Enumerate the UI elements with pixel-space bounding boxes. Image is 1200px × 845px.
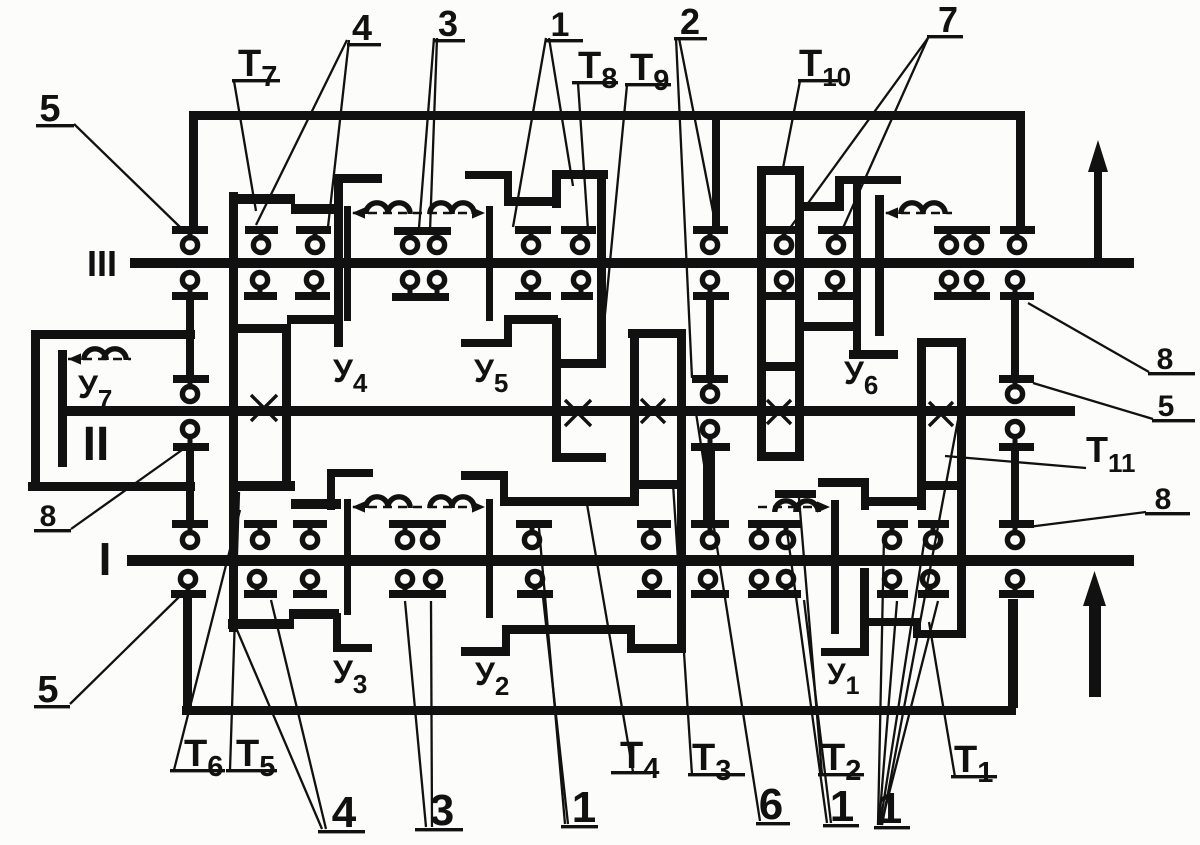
svg-text:8: 8	[40, 500, 57, 533]
gear z4 above shaft III	[561, 226, 596, 234]
clutch T11 box top bar	[917, 338, 966, 347]
gear z1 above shaft III	[245, 226, 278, 234]
clutch T10 drum left wall	[757, 166, 766, 461]
svg-text:2: 2	[680, 1, 700, 42]
gear above shaft I, middle column	[691, 520, 729, 528]
coupling box 1 bottom bar / clutch T5 upper bar	[229, 481, 295, 491]
gear w6 above shaft I	[918, 520, 949, 528]
output arrow (top right, on shaft III)	[1094, 168, 1102, 260]
coupling box 2 left wall	[552, 318, 561, 462]
svg-text:4: 4	[332, 788, 357, 837]
shaft III	[130, 258, 1134, 268]
gear z2 above shaft III	[296, 226, 331, 234]
gear above shaft II, middle column	[692, 375, 728, 383]
coupling box 1 top bar	[233, 324, 291, 333]
gear block U7 housing (left box)	[31, 330, 40, 491]
clutch T3 drum wall (crosses shafts II and I)	[677, 329, 686, 653]
gear w2 below shaft I	[293, 590, 327, 598]
clutch T3 step wall	[627, 629, 635, 653]
gear z6 below shaft III	[766, 292, 802, 300]
gear block U5 bottom bar	[461, 339, 512, 347]
coupling cross box 3	[641, 399, 665, 423]
clutch T1 upper bar	[861, 618, 921, 626]
gear above shaft I, left support	[172, 520, 208, 528]
twin gears below shaft I (right pair)	[748, 590, 801, 598]
gear below shaft III, left column	[172, 292, 208, 300]
clutch T8 left wall stub	[552, 170, 561, 208]
gear block U2 bottom-left bar	[461, 647, 510, 656]
clutch T8 left bar	[504, 197, 558, 206]
gear below shaft II, right column	[999, 443, 1034, 451]
svg-text:1: 1	[830, 782, 854, 831]
shaft II	[62, 406, 1075, 416]
clutch drum top bar (right of T10)	[835, 176, 901, 184]
gear z5 above shaft III	[693, 226, 728, 234]
coupling cross box 5 (T11)	[929, 402, 953, 426]
clutch T4 step wall	[500, 471, 508, 506]
housing frame top bar	[189, 111, 1025, 120]
gear below shaft III, right column	[1000, 292, 1034, 300]
gear block U3 left wall	[327, 469, 335, 510]
svg-text:6: 6	[759, 780, 783, 829]
svg-text:8: 8	[1155, 483, 1172, 516]
idler link shaft III-II (middle column)	[706, 300, 714, 375]
gear w3 above shaft I	[516, 520, 552, 528]
gear w5 above shaft I	[877, 520, 908, 528]
svg-text:3: 3	[430, 786, 454, 835]
gear z7 below shaft III	[818, 292, 854, 300]
gear block U4 top bar	[334, 174, 382, 183]
svg-text:4: 4	[352, 7, 372, 48]
gear above shaft I, right column	[999, 520, 1034, 528]
clutch T2 plate bar	[775, 490, 816, 498]
svg-text:III: III	[87, 243, 117, 284]
svg-text:1: 1	[572, 783, 596, 832]
gear z1 below shaft III	[244, 292, 277, 300]
gear block U3 top bar	[327, 469, 373, 477]
gear z7 above shaft III	[818, 226, 854, 234]
support from frame top to shaft III gear	[712, 120, 720, 226]
twin gears below shaft I (left pair)	[389, 590, 446, 598]
clutch T11/T1 drum wall (crosses shafts II and I)	[957, 338, 966, 638]
svg-text:5: 5	[39, 88, 60, 130]
clutch T10 top bar	[757, 166, 804, 175]
gear below shaft I, middle column	[691, 590, 729, 598]
coupling box 3 bottom bar	[630, 480, 681, 489]
housing frame bottom bar	[182, 706, 1016, 715]
U7 rack bar	[58, 350, 67, 467]
gear above shaft II, left column	[173, 375, 209, 383]
gear w1 below shaft I	[244, 590, 277, 598]
svg-text:7: 7	[938, 0, 958, 40]
idler link below shaft II to U7 box (left)	[186, 451, 194, 482]
gear below shaft I, left support	[171, 590, 206, 598]
gear block U4 left wall	[334, 174, 343, 347]
gear block U1 wall	[860, 568, 869, 656]
U7 spring arrow (left box)	[68, 358, 131, 360]
gear w3 below shaft I	[517, 590, 553, 598]
gear w4 above shaft I	[637, 520, 671, 528]
gear z6 above shaft III	[766, 226, 802, 234]
frame right upper vertical	[1016, 111, 1025, 230]
clutch T4 long lower bar	[500, 497, 631, 506]
clutch T1 step wall	[913, 618, 921, 638]
synchronizer U6 spring arrow (top right)	[886, 212, 952, 214]
gear block U3 bottom wall	[333, 613, 341, 652]
clutch T1 lower bar	[913, 630, 962, 638]
coupling cross box 2	[565, 400, 591, 426]
twin gears above shaft III (right pair)	[934, 226, 990, 234]
clutch T9b/U6 drum wall (crosses shaft III)	[853, 176, 861, 359]
clutch T10 right bar	[795, 202, 843, 211]
coupling box 2 top bar	[552, 359, 606, 368]
twin gears above shaft III (center pair, under synchronizer)	[394, 227, 451, 235]
coupling box 3 top bar	[628, 329, 684, 338]
gear below shaft I, right column	[999, 590, 1034, 598]
clutch T8 top bar	[552, 170, 608, 179]
svg-text:5: 5	[1158, 390, 1175, 423]
gear z2 below shaft III	[295, 292, 330, 300]
twin gears above shaft I (right pair)	[748, 520, 801, 528]
clutch T7 lower step bar	[291, 204, 341, 214]
coupling box 1 right wall	[282, 324, 291, 490]
gear above shaft III, right support	[1000, 226, 1035, 234]
gear z3 below shaft III	[515, 292, 551, 300]
gear w1 above shaft I	[244, 520, 277, 528]
twin gears below shaft III (center pair, under synchronizer)	[392, 293, 449, 301]
synchronizer sleeve bar (T2)	[831, 500, 839, 634]
gear w2 above shaft I	[293, 520, 327, 528]
svg-text:5: 5	[37, 669, 58, 711]
twin gears above shaft I (left pair)	[389, 520, 446, 528]
gear w5 below shaft I	[877, 590, 908, 598]
clutch T3 bottom bar	[627, 644, 684, 653]
svg-text:1: 1	[551, 6, 570, 44]
clutch T5 lower step bar	[291, 499, 341, 509]
gear z4 below shaft III	[561, 292, 593, 300]
clutch T6/T7 drum wall (long vertical left)	[229, 192, 238, 632]
coupling box 4 bottom bar	[757, 452, 804, 461]
clutch T6 lower bar	[228, 619, 294, 629]
clutch T4 upper bar	[461, 471, 508, 480]
svg-text:I: I	[99, 533, 112, 585]
input arrow (bottom right, to shaft I)	[1089, 600, 1101, 697]
synchronizer U4-U5 (top), sleeve bars with double spring arrow	[344, 206, 351, 321]
synchronizer sleeve bar (U6)	[875, 195, 884, 336]
coupling cross box 4	[767, 400, 791, 424]
clutch T10 drum right wall	[795, 166, 804, 461]
gear block U2 step wall	[502, 625, 510, 656]
gear above shaft II, right column	[999, 375, 1034, 383]
clutch T2 upper cup bar	[818, 478, 869, 487]
clutch T7 upper bar	[229, 194, 295, 204]
idler link shaft III-II (right column)	[1011, 300, 1019, 375]
gear z5 below shaft III	[693, 292, 729, 300]
svg-text:II: II	[83, 418, 110, 471]
svg-text:8: 8	[1157, 343, 1174, 376]
clutch T11 box left wall	[917, 338, 926, 510]
gear block U4 mid bar	[287, 315, 338, 324]
gear w6 below shaft I	[918, 590, 949, 598]
coupling box 3 left wall	[630, 329, 639, 506]
gear block U5 top step wall	[504, 171, 512, 206]
svg-text:3: 3	[438, 3, 458, 44]
coupling box 2 bottom bar	[552, 453, 606, 462]
coupling cross box 1	[251, 395, 277, 421]
gear below shaft II, left column	[173, 443, 209, 451]
synchronizer U3-U2 (bottom), sleeve bars with double spring arrow	[344, 499, 351, 615]
twin gears below shaft III (right pair)	[934, 292, 990, 300]
gear z3 above shaft III	[515, 226, 551, 234]
frame right lower vertical	[1008, 599, 1018, 708]
gear block U5 lower step wall	[504, 318, 512, 347]
idler link shaft II-I (right column)	[1011, 451, 1019, 520]
gear block U6 right bar	[849, 350, 898, 359]
frame left upper vertical	[189, 111, 198, 230]
idler link U7 box to shaft I gear (left)	[186, 491, 194, 520]
shaft I	[127, 555, 1134, 566]
synchronizer T2 spring arrow (bottom right)	[758, 506, 829, 508]
idler link shaft III-II (left column)	[186, 300, 194, 375]
clutch T2 cup step wall	[861, 478, 869, 510]
idler link shaft II-I (middle column, wide)	[703, 451, 715, 520]
gear block U1 bottom-left bar	[821, 648, 869, 656]
gear block U2 top bar	[502, 625, 635, 634]
gear block U3 bottom bar	[333, 644, 372, 652]
gear w4 below shaft I	[637, 590, 671, 598]
clutch T10 right step wall	[835, 176, 844, 211]
gear below shaft II, middle column	[691, 443, 730, 451]
coupling box 4 top bar	[757, 362, 804, 371]
gear block U5 lower bar	[504, 315, 558, 324]
gear block U6 top bar	[795, 322, 857, 331]
gear on shaft III above, left support	[172, 226, 208, 234]
gear block U5 top-left bar	[465, 171, 512, 179]
clutch T9 drum wall (crosses shaft III)	[597, 174, 606, 368]
clutch T6 upper step bar	[289, 609, 339, 619]
clutch T11 box bottom bar	[919, 481, 966, 490]
frame left lower vertical	[183, 596, 192, 708]
clutch T2 lower long bar	[861, 497, 925, 506]
